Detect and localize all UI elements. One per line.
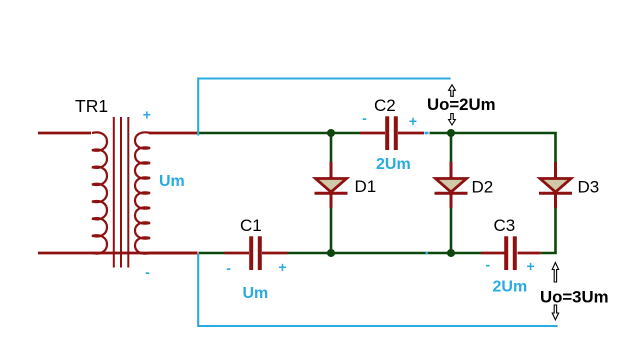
wire: bottom green corner to D3 xyxy=(541,243,556,253)
wire: top bus green from C2 right to D3 corner xyxy=(430,133,556,163)
svg-text:+: + xyxy=(409,113,417,129)
capacitor C3 xyxy=(481,216,541,296)
D2 cathode pin xyxy=(450,193,453,208)
C3 right plate xyxy=(513,236,517,270)
capacitor C1 xyxy=(225,216,288,302)
wire: C1 right lead xyxy=(262,252,288,255)
svg-text:D2: D2 xyxy=(472,178,494,197)
svg-text:Uo=3Um: Uo=3Um xyxy=(540,288,609,307)
svg-text:C2: C2 xyxy=(374,96,396,115)
measure line: bottom cyan bracket xyxy=(198,254,557,326)
wire: D2 branch green xyxy=(450,133,453,163)
arrow down (Uo=3Um) xyxy=(552,305,558,320)
svg-text:-: - xyxy=(485,257,490,273)
D1 cathode pin xyxy=(330,193,333,208)
node B (top of D2) xyxy=(447,129,455,137)
D3 anode pin xyxy=(554,162,557,178)
svg-text:+: + xyxy=(143,107,151,123)
wire: C3 right lead xyxy=(518,252,541,255)
D1 cathode bar xyxy=(315,192,348,195)
svg-text:-: - xyxy=(226,260,231,276)
C1 left plate xyxy=(249,236,253,270)
node C (bottom of D1) xyxy=(327,249,335,257)
annotation Uo=3Um xyxy=(540,263,609,320)
svg-text:Um: Um xyxy=(243,285,269,302)
node A (top of D1) xyxy=(327,129,335,137)
wire: D3 branch green xyxy=(554,163,557,177)
wire: bottom bus green C1 to C3 xyxy=(288,252,482,255)
capacitor C2 xyxy=(360,96,424,173)
D3 cathode pin xyxy=(554,193,557,208)
svg-text:+: + xyxy=(527,258,535,274)
transformer TR1 xyxy=(38,96,198,280)
primary winding xyxy=(92,132,107,253)
wire: top bus green from measure point to node A xyxy=(199,132,361,135)
wire: cyan stub on bottom bus xyxy=(426,252,429,255)
wire: cyan stub on top bus xyxy=(425,132,429,135)
arrow up (Uo=2Um) xyxy=(449,85,456,97)
wire: C1 left lead xyxy=(225,252,250,255)
arrow up (Uo=3Um) xyxy=(552,263,558,283)
wire: D1 branch green xyxy=(330,133,333,163)
diode D3 xyxy=(539,162,599,208)
svg-text:+: + xyxy=(278,259,286,275)
svg-text:Um: Um xyxy=(159,173,185,190)
wire: primary top lead xyxy=(38,132,91,135)
wire: C2 right lead xyxy=(398,132,424,135)
svg-text:D3: D3 xyxy=(578,178,600,197)
node D (bottom of D2) xyxy=(447,249,455,257)
wire: bottom bus green segment to C1 xyxy=(199,252,225,255)
svg-text:D1: D1 xyxy=(355,177,377,196)
C2 left plate xyxy=(385,116,389,150)
measure line: top cyan bracket xyxy=(198,79,450,136)
D2 triangle xyxy=(436,179,467,193)
wire: C3 left lead xyxy=(481,252,505,255)
D1 anode pin xyxy=(330,162,333,178)
svg-text:-: - xyxy=(362,110,367,126)
svg-text:-: - xyxy=(145,264,150,280)
wire: secondary bottom lead (red) xyxy=(149,252,198,255)
wire: bottom transformer lead (red) xyxy=(38,252,198,255)
svg-text:2Um: 2Um xyxy=(376,156,411,173)
secondary winding xyxy=(135,132,150,253)
svg-text:C3: C3 xyxy=(494,216,516,235)
annotation Uo=2Um xyxy=(427,85,496,125)
C1 right plate xyxy=(258,236,262,270)
svg-text:Uo=2Um: Uo=2Um xyxy=(427,95,496,114)
diode D2 xyxy=(435,162,494,208)
D1 triangle xyxy=(316,179,347,193)
D3 cathode bar xyxy=(539,192,572,195)
diode D1 xyxy=(315,162,377,208)
svg-text:C1: C1 xyxy=(240,216,262,235)
C3 left plate xyxy=(504,236,508,270)
D3 triangle xyxy=(540,179,571,193)
wire: top secondary lead (red) xyxy=(149,132,198,135)
svg-text:TR1: TR1 xyxy=(75,96,108,116)
C2 right plate xyxy=(394,116,398,150)
wire: C2 left lead xyxy=(360,132,385,135)
core lines xyxy=(113,117,115,268)
D2 anode pin xyxy=(450,162,453,178)
arrow down (Uo=2Um) xyxy=(449,114,456,126)
svg-text:2Um: 2Um xyxy=(493,279,528,296)
D2 cathode bar xyxy=(435,192,468,195)
